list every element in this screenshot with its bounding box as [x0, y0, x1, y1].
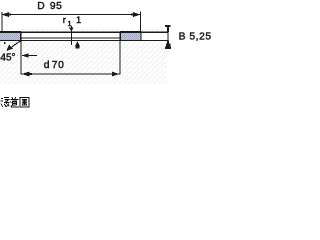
- dimension r1 1 : leader line: [71, 26, 72, 45]
- svg-text:5,25: 5,25: [189, 31, 211, 42]
- char 3: [20, 97, 29, 106]
- svg-text:d: d: [44, 60, 50, 71]
- dimension B 5,25 : label: [179, 31, 212, 42]
- char 1: [1, 98, 10, 107]
- svg-text:70: 70: [52, 60, 65, 71]
- dimension B 5,25 : upper cap bar: [165, 25, 171, 27]
- dimension r1 1 : down arrowhead at top surface: [69, 27, 74, 31]
- dimension D 95 : right extension line: [140, 11, 141, 31]
- dimension d 70 : left extension line: [20, 41, 21, 75]
- washer top surface line: [0, 32, 169, 33]
- dimension B 5,25 : lower arrow body: [166, 44, 171, 47]
- dimension d 70 : right extension line: [120, 41, 121, 75]
- bore left edge vertical: [20, 32, 21, 42]
- svg-text:95: 95: [50, 1, 62, 12]
- background watermark hatch: [0, 29, 167, 84]
- svg-text:1: 1: [76, 14, 81, 25]
- dimension r1 1 : label: [63, 14, 81, 28]
- 45 deg chamfer callout : corner stub: [20, 40, 21, 42]
- dimension d 70 : dimension line: [20, 73, 120, 74]
- washer body white band: [0, 32, 169, 41]
- dimension B 5,25 : lower arrow stem: [167, 41, 169, 44]
- bore right edge vertical: [120, 32, 121, 41]
- washer right ring section (blue): [120, 32, 141, 41]
- 45 deg chamfer callout : horizontal arrow to bore line: [22, 55, 37, 56]
- dimension D 95 : left extension line: [1, 12, 2, 32]
- svg-text:45°: 45°: [0, 53, 15, 64]
- dimension B 5,25 : lower cap bar: [165, 47, 171, 49]
- dimension r1 1 : up arrowhead at bottom surface: [75, 41, 80, 46]
- dimension D 95 : dimension line: [2, 14, 141, 15]
- 45 deg chamfer callout : extension diagonal: [7, 41, 21, 51]
- watermark chinese characters: [1, 97, 29, 107]
- char 2: [10, 97, 19, 107]
- svg-text:r: r: [63, 15, 67, 26]
- washer bottom surface line: [0, 40, 169, 41]
- washer left ring section (blue): [0, 32, 21, 41]
- bore chamfer far-edge line: [21, 38, 121, 39]
- dimension r1 1 : up arrow foot: [76, 46, 80, 48]
- 45 deg chamfer callout : arrowhead on diagonal: [6, 45, 13, 51]
- dimension D 95 : label: [37, 1, 62, 12]
- dimension B 5,25 : vertical dimension line: [168, 27, 169, 41]
- 45 deg chamfer callout : small dot: [4, 42, 6, 44]
- svg-text:B: B: [179, 31, 186, 42]
- dimension B 5,25 : upper arrow stem: [167, 27, 169, 32]
- dimension d 70 : right arrowhead: [112, 72, 120, 77]
- dimension d 70 : left arrowhead: [22, 72, 32, 77]
- dimension D 95 : right arrowhead: [131, 12, 141, 17]
- dimension D 95 : left arrowhead: [2, 12, 12, 17]
- dimension d 70 : label: [44, 60, 65, 71]
- svg-text:D: D: [37, 1, 44, 12]
